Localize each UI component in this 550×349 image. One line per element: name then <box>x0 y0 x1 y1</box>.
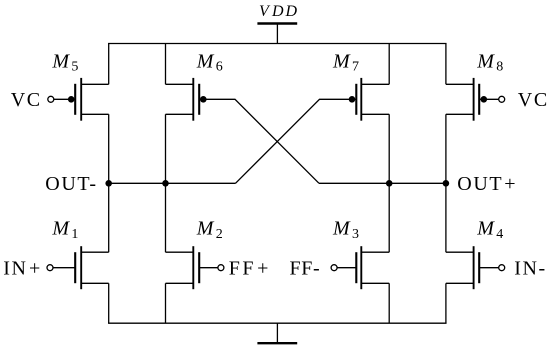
svg-text:VC: VC <box>11 89 42 111</box>
svg-text:FF+: FF+ <box>229 258 270 280</box>
svg-text:VC: VC <box>518 89 549 111</box>
svg-text:OUT+: OUT+ <box>457 173 517 195</box>
svg-text:IN+: IN+ <box>3 258 42 280</box>
svg-text:OUT-: OUT- <box>45 173 97 195</box>
svg-text:IN-: IN- <box>514 258 547 280</box>
svg-text:FF-: FF- <box>290 258 321 280</box>
svg-text:VDD: VDD <box>259 3 299 20</box>
